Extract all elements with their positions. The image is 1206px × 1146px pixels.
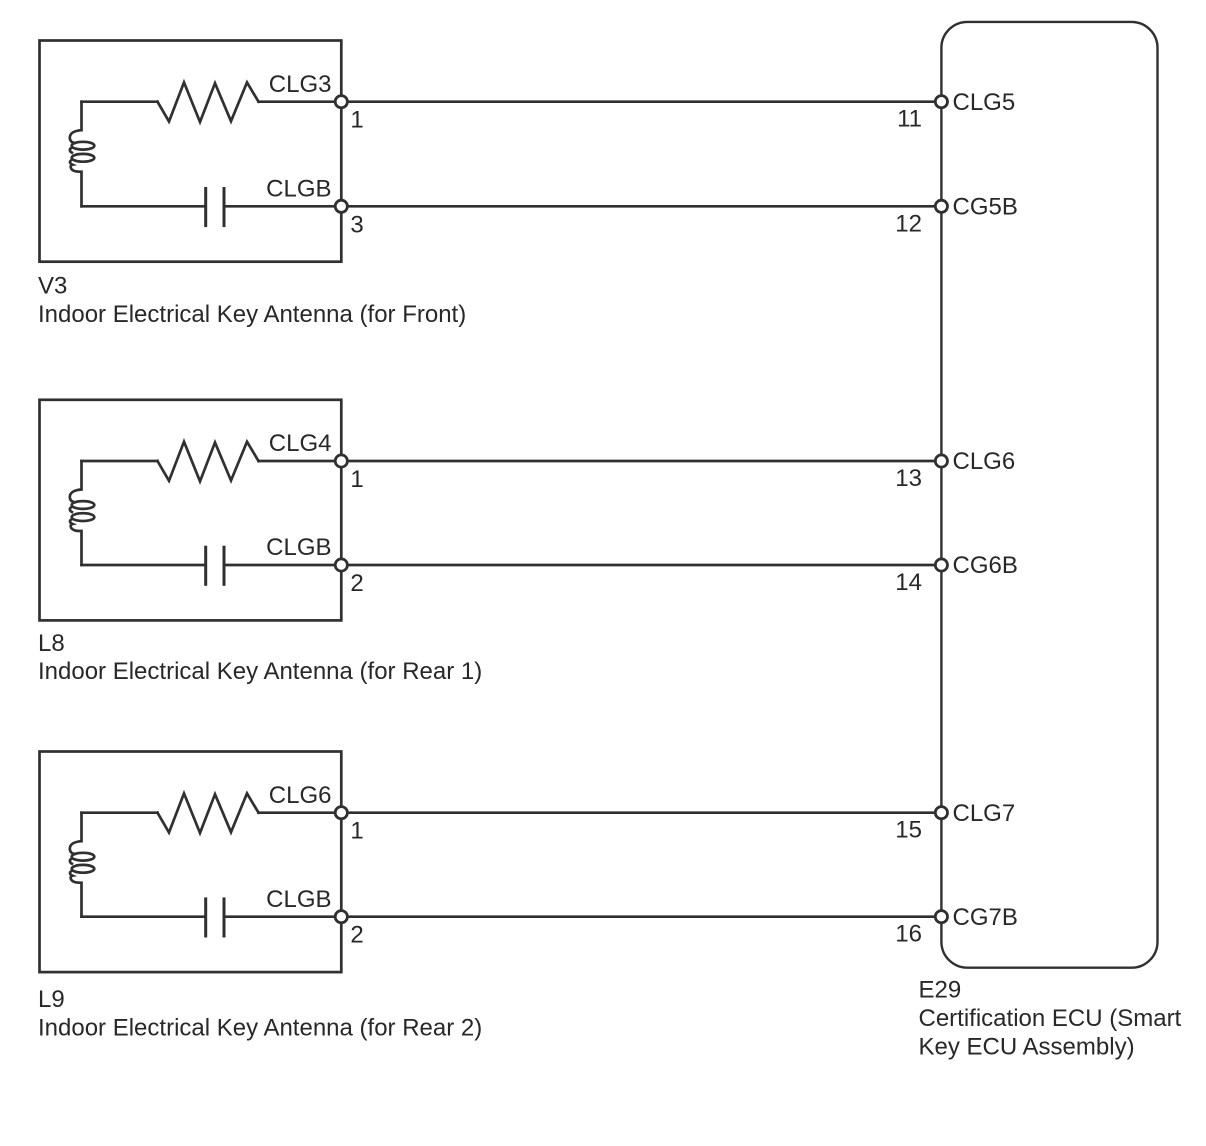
wire inductor to capacitor (V3) bbox=[82, 205, 205, 208]
svg-text:CLG6: CLG6 bbox=[953, 448, 1016, 475]
capacitor (L8) bbox=[206, 547, 224, 584]
wire inductor to resistor (L8) bbox=[82, 460, 158, 463]
pin 11 terminal of E29 (CLG5) bbox=[935, 96, 947, 108]
svg-text:CLG3: CLG3 bbox=[269, 71, 332, 98]
svg-text:Indoor Electrical Key Antenna: Indoor Electrical Key Antenna (for Rear … bbox=[38, 658, 482, 685]
pin 1 terminal of L8 bbox=[335, 455, 347, 467]
svg-text:11: 11 bbox=[897, 106, 922, 133]
wire inductor to capacitor (L8) bbox=[82, 564, 205, 567]
inductor coil (L8) bbox=[70, 461, 94, 565]
svg-text:14: 14 bbox=[895, 569, 922, 596]
wire CLG6 to CLG7 bbox=[341, 811, 941, 814]
svg-text:2: 2 bbox=[350, 922, 363, 949]
svg-text:L8: L8 bbox=[38, 630, 65, 657]
wire inductor to resistor (L9) bbox=[82, 811, 158, 814]
resistor (L9) bbox=[158, 793, 259, 833]
antenna block V3 outline bbox=[40, 41, 342, 262]
svg-text:12: 12 bbox=[895, 210, 922, 237]
svg-text:15: 15 bbox=[895, 817, 922, 844]
pin 1 terminal of V3 bbox=[335, 96, 347, 108]
pin 2 terminal of L9 bbox=[335, 911, 347, 923]
pin 2 terminal of L8 bbox=[335, 559, 347, 571]
resistor (L8) bbox=[158, 442, 259, 482]
wire capacitor to pin 2 (L8) bbox=[226, 564, 342, 567]
svg-text:Indoor Electrical Key Antenna: Indoor Electrical Key Antenna (for Rear … bbox=[38, 1015, 482, 1042]
svg-text:2: 2 bbox=[350, 570, 363, 597]
wire inductor to resistor (V3) bbox=[82, 100, 158, 103]
capacitor (V3) bbox=[206, 189, 224, 226]
svg-text:Certification ECU (Smart: Certification ECU (Smart bbox=[919, 1005, 1182, 1032]
svg-text:Key ECU Assembly): Key ECU Assembly) bbox=[919, 1034, 1135, 1061]
pin 16 terminal of E29 (CG7B) bbox=[935, 911, 947, 923]
ECU E29 outline (Certification ECU) bbox=[941, 22, 1157, 968]
pin 14 terminal of E29 (CG6B) bbox=[935, 559, 947, 571]
svg-text:CG5B: CG5B bbox=[953, 194, 1018, 221]
svg-text:Indoor Electrical Key Antenna: Indoor Electrical Key Antenna (for Front… bbox=[38, 301, 466, 328]
pin 1 terminal of L9 bbox=[335, 807, 347, 819]
svg-text:13: 13 bbox=[895, 465, 922, 492]
resistor (V3) bbox=[158, 82, 259, 122]
pin 3 terminal of V3 bbox=[335, 200, 347, 212]
wire resistor to pin 1 (L9) bbox=[259, 811, 342, 814]
svg-text:L9: L9 bbox=[38, 986, 65, 1013]
inductor coil (L9) bbox=[70, 813, 94, 917]
wire CLG4 to CLG6 bbox=[341, 460, 941, 463]
svg-text:CLG5: CLG5 bbox=[953, 89, 1016, 116]
wire inductor to capacitor (L9) bbox=[82, 915, 205, 918]
svg-text:V3: V3 bbox=[38, 273, 67, 300]
wire CLGB to CG6B bbox=[341, 564, 941, 567]
svg-text:CLG6: CLG6 bbox=[269, 782, 332, 809]
svg-text:CLGB: CLGB bbox=[266, 176, 331, 203]
wire CLGB to CG7B bbox=[341, 915, 941, 918]
svg-text:CG7B: CG7B bbox=[953, 904, 1018, 931]
pin 13 terminal of E29 (CLG6) bbox=[935, 455, 947, 467]
antenna block L9 outline bbox=[40, 752, 342, 973]
wire CLG3 to CLG5 bbox=[341, 100, 941, 103]
svg-text:CLGB: CLGB bbox=[266, 886, 331, 913]
svg-text:3: 3 bbox=[350, 211, 363, 238]
antenna block L8 outline bbox=[40, 400, 342, 621]
wire resistor to pin 1 (L8) bbox=[259, 460, 342, 463]
wire capacitor to pin 3 (V3) bbox=[226, 205, 342, 208]
svg-text:1: 1 bbox=[350, 818, 363, 845]
wire capacitor to pin 2 (L9) bbox=[226, 915, 342, 918]
svg-text:CLGB: CLGB bbox=[266, 534, 331, 561]
svg-text:1: 1 bbox=[350, 466, 363, 493]
svg-text:E29: E29 bbox=[919, 977, 962, 1004]
svg-text:CLG7: CLG7 bbox=[953, 800, 1016, 827]
wire resistor to pin 1 (V3) bbox=[259, 100, 342, 103]
svg-text:CG6B: CG6B bbox=[953, 552, 1018, 579]
svg-text:16: 16 bbox=[895, 921, 922, 948]
pin 12 terminal of E29 (CG5B) bbox=[935, 200, 947, 212]
svg-text:CLG4: CLG4 bbox=[269, 430, 332, 457]
wire CLGB to CG5B bbox=[341, 205, 941, 208]
pin 15 terminal of E29 (CLG7) bbox=[935, 807, 947, 819]
inductor coil (V3) bbox=[70, 102, 94, 207]
capacitor (L9) bbox=[206, 899, 224, 936]
svg-text:1: 1 bbox=[350, 107, 363, 134]
